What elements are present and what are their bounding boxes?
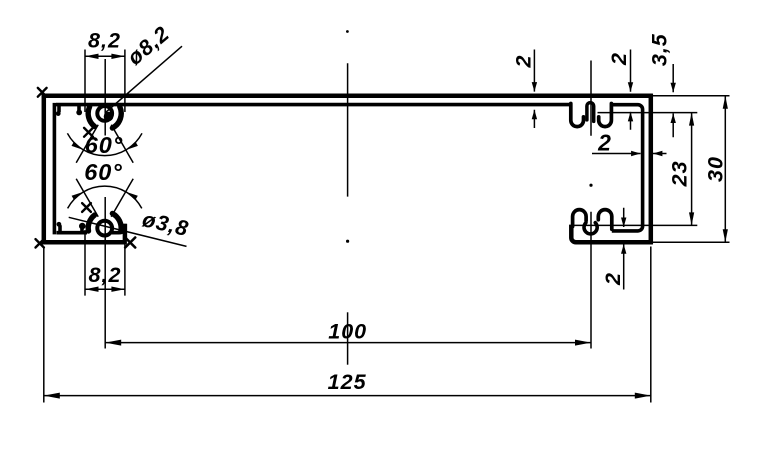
screw boss top-left right flange bbox=[112, 107, 121, 128]
svg-text:2: 2 bbox=[601, 272, 625, 286]
extension line top-right outer (for 30 dim) bbox=[653, 95, 730, 97]
dim 60deg top angle legs bbox=[76, 125, 133, 163]
profile bottom-right wall outer line bbox=[571, 225, 653, 243]
profile right wall outer line bbox=[649, 94, 654, 245]
screw boss bottom-left right flange bbox=[112, 214, 121, 232]
screw boss top-left hole circle o3,8 bbox=[97, 106, 112, 121]
screw boss bottom-left left flange bbox=[88, 215, 94, 231]
x-mark bottom boss left leg bbox=[82, 203, 91, 212]
profile bottom-left wall outer line bbox=[42, 240, 127, 245]
hook bottom-right right finger arch bbox=[598, 210, 612, 230]
dim 125 line+arrows bbox=[44, 395, 651, 397]
groove stub top-left B bbox=[77, 105, 81, 112]
dim 30 (x=725.3) bbox=[724, 96, 726, 243]
dim 23 (x=691.6) bbox=[691, 113, 693, 226]
svg-text:23: 23 bbox=[668, 160, 692, 187]
profile left wall outer line bbox=[42, 94, 47, 245]
svg-text:2: 2 bbox=[607, 52, 631, 66]
screw boss bottom-left hole circle o3,8 bbox=[97, 221, 112, 236]
dim 2 bottom (x=623.7) bbox=[623, 208, 625, 290]
centerline left boss vertical dash-dot bbox=[104, 59, 106, 349]
dim 8,2 bottom line+arrows bbox=[85, 288, 125, 290]
dim 8,2 top line+arrows bbox=[85, 55, 125, 57]
svg-text:60°: 60° bbox=[84, 159, 123, 185]
dim 2 top middle (x=630.5) bbox=[630, 50, 632, 130]
profile left wall inner line bbox=[53, 103, 57, 235]
x-mark bottom-left wall end bbox=[125, 238, 135, 248]
profile top wall outer line bbox=[42, 93, 653, 98]
centerline right hooks (dash-dot) bbox=[590, 61, 592, 349]
dim 2 horizontal right-wall thickness (y=153.5) bbox=[592, 153, 667, 155]
extension lines 8,2 bottom bbox=[85, 230, 125, 296]
groove stub top-left A bbox=[57, 105, 61, 113]
svg-text:30: 30 bbox=[704, 156, 728, 182]
svg-text:2: 2 bbox=[511, 55, 535, 69]
svg-text:125: 125 bbox=[328, 370, 367, 394]
svg-text:8,2: 8,2 bbox=[89, 263, 122, 287]
dim 60deg top arrows bbox=[126, 142, 138, 150]
svg-text:100: 100 bbox=[328, 320, 367, 344]
svg-text:3,5: 3,5 bbox=[648, 33, 672, 66]
extension lines 8,2 top bbox=[85, 50, 125, 113]
dim o8,2 leader line bbox=[106, 46, 183, 112]
dim 60deg bottom arrows bbox=[126, 192, 138, 200]
dim o8,2 leader dot bbox=[104, 112, 114, 122]
centerline middle (dash-dot) bbox=[346, 30, 349, 33]
dim 60deg top arc bbox=[67, 133, 142, 155]
x-mark top-left corner bbox=[38, 88, 47, 97]
hook bottom-right center C channel bbox=[584, 223, 597, 234]
profile top wall inner line bbox=[56, 103, 571, 107]
dim 100 line+arrows bbox=[105, 342, 591, 344]
dim 3,5 (x=673.2) bbox=[672, 64, 674, 137]
extension line bottom ledge (for 2/23 dims) bbox=[572, 224, 698, 226]
hook top-right center arch bbox=[587, 103, 594, 122]
extension line bottom-right outer (for 30 dim) bbox=[653, 241, 730, 243]
profile bottom-left wall end face bbox=[123, 224, 128, 241]
hook top-right left finger bbox=[571, 104, 584, 127]
screw boss top-left left flange bbox=[88, 107, 94, 127]
dim o3,8 leader line bbox=[69, 217, 187, 246]
dim 60deg bottom angle legs bbox=[76, 179, 133, 217]
profile bottom-left wall inner line bbox=[57, 231, 120, 235]
extension line top ledge 3.5mm (for 2/3,5/23 dims) bbox=[598, 112, 698, 114]
svg-text:8,2: 8,2 bbox=[88, 29, 121, 53]
hook bottom-right left finger arch bbox=[573, 210, 587, 227]
x-mark top boss left leg bbox=[84, 128, 93, 137]
hook top-right right finger bbox=[599, 104, 612, 127]
profile bottom-left wall end lip bbox=[119, 224, 125, 233]
dim 60deg bottom arc bbox=[68, 186, 142, 208]
dim 2 wall-thickness left (x=534.4) bbox=[533, 50, 535, 129]
x-mark bottom-left corner bbox=[36, 239, 44, 247]
extension lines 125 dim bbox=[44, 247, 651, 403]
svg-text:2: 2 bbox=[597, 130, 612, 156]
profile right wall inner line + ledges bbox=[611, 105, 642, 231]
groove stub bottom-left B bbox=[80, 227, 84, 232]
groove stub bottom-left A bbox=[58, 225, 62, 233]
